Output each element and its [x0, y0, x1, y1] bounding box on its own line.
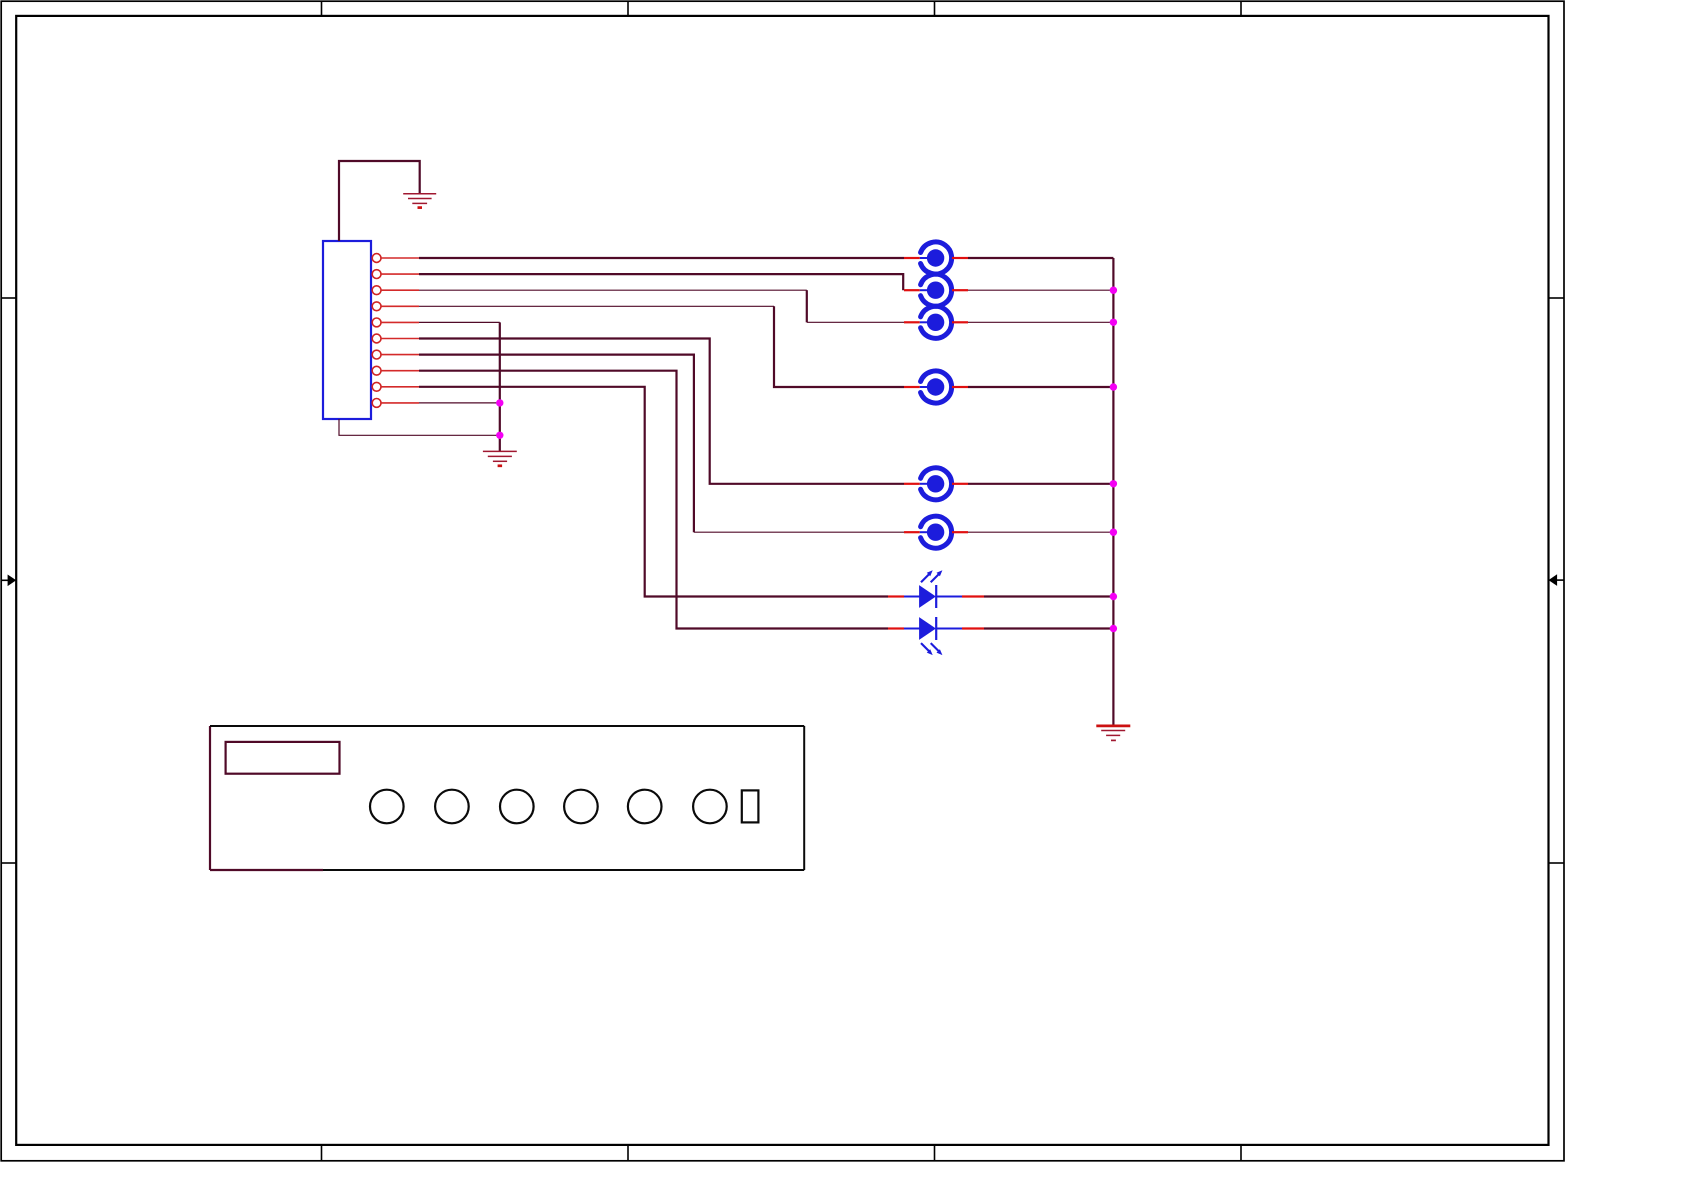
wire jack J4 to bus: [968, 321, 1113, 323]
panel knob 3: [500, 790, 534, 824]
panel outline left (maroon): [209, 726, 211, 870]
junction node A: [496, 399, 503, 406]
wire jack J2 to bus: [968, 257, 1113, 259]
pin 8: [372, 366, 419, 375]
panel outline bottom-right (black): [323, 869, 804, 871]
wire row5 to ground net: [419, 321, 500, 323]
border tick bottom 3: [934, 1145, 936, 1161]
wire bus vertical: [1112, 258, 1114, 726]
junction node E: [1110, 383, 1117, 390]
pin 10: [372, 399, 419, 408]
panel switch slot: [742, 790, 759, 822]
border tick bottom 1: [321, 1145, 323, 1161]
ground GND3: [1096, 726, 1130, 741]
border tick right upper: [1549, 297, 1565, 299]
panel knob 4: [564, 790, 598, 824]
border tick top 2: [627, 2, 629, 16]
panel knob 2: [435, 790, 469, 824]
wire jack J7 to bus: [968, 531, 1113, 533]
wire J1 bottom to ground net: [339, 419, 500, 435]
junction node D: [1110, 319, 1117, 326]
panel knob 5: [628, 790, 662, 824]
border tick left lower: [1, 862, 16, 864]
junction node C: [1110, 287, 1117, 294]
border tick bottom 4: [1240, 1145, 1242, 1161]
wire LED D1 to bus: [984, 595, 1113, 597]
wire jack J5 to bus: [968, 386, 1113, 388]
junction node G: [1110, 529, 1117, 536]
wire row6 to jack J6: [419, 339, 904, 484]
wire row7 to jack J7: [419, 355, 694, 533]
panel knob 1: [370, 790, 404, 824]
wire row10 to ground net: [419, 402, 500, 404]
wire jack J6 to bus: [968, 483, 1113, 485]
panel outline bottom-left (maroon): [210, 869, 323, 871]
panel outline right (black): [803, 726, 805, 870]
wire row3 to jack J4: [419, 289, 807, 291]
border tick top 4: [1240, 2, 1242, 16]
junction node F: [1110, 480, 1117, 487]
pin 3: [372, 286, 419, 295]
wire row2 to jack J3: [419, 274, 903, 290]
wire row9 to LED D1: [419, 387, 888, 597]
panel display window: [226, 742, 340, 774]
RCA jack J5: [904, 371, 968, 403]
LED D1: [888, 570, 984, 608]
border tick right lower: [1549, 862, 1565, 864]
pin 7: [372, 350, 419, 359]
pin 2: [372, 270, 419, 279]
LED D2: [888, 617, 984, 655]
border tick bottom 2: [627, 1145, 629, 1161]
border tick top 3: [934, 2, 936, 16]
junction node I: [1110, 625, 1117, 632]
border arrow left: [1, 575, 16, 587]
wire J1 top to GND1: [339, 161, 420, 241]
wire row8 to LED D2: [419, 371, 888, 629]
border tick top 1: [321, 2, 323, 16]
border arrow right: [1549, 574, 1565, 586]
panel outline top (black): [210, 725, 804, 727]
junction node B: [496, 432, 503, 439]
wire row4 to jack J5: [419, 305, 774, 307]
RCA jack J4: [904, 306, 968, 338]
RCA jack J6: [904, 468, 968, 500]
pin 1: [372, 254, 419, 263]
ground GND1: [403, 194, 436, 208]
pin 6: [372, 334, 419, 343]
pin 9: [372, 382, 419, 391]
wire row1 to jack J2: [419, 257, 904, 259]
RCA jack J2: [904, 242, 968, 274]
wire LED D2 to bus: [984, 627, 1113, 629]
panel knob 6: [693, 790, 727, 824]
junction node H: [1110, 593, 1117, 600]
wire ground net stub: [499, 435, 501, 451]
RCA jack J3: [904, 274, 968, 306]
connector J1: [323, 241, 371, 419]
pin 4: [372, 302, 419, 311]
border tick left upper: [1, 297, 16, 299]
pin 5: [372, 318, 419, 327]
RCA jack J7: [904, 516, 968, 548]
wire jack J3 to bus: [968, 289, 1113, 291]
ground GND2: [483, 451, 517, 465]
